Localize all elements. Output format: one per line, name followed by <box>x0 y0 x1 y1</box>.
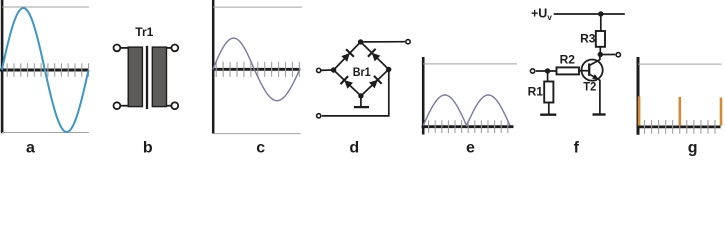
svg-text:Tr1: Tr1 <box>135 25 153 39</box>
svg-text:R3: R3 <box>580 31 596 45</box>
svg-text:R1: R1 <box>528 85 544 99</box>
svg-text:c: c <box>256 139 265 156</box>
svg-text:d: d <box>349 139 359 156</box>
svg-text:R2: R2 <box>560 52 576 66</box>
svg-text:T2: T2 <box>583 80 596 94</box>
svg-text:a: a <box>26 139 35 156</box>
svg-text:b: b <box>143 139 153 156</box>
svg-text:e: e <box>466 139 475 156</box>
svg-text:Br1: Br1 <box>353 65 371 79</box>
svg-text:g: g <box>688 139 698 156</box>
svg-text:f: f <box>574 139 580 156</box>
